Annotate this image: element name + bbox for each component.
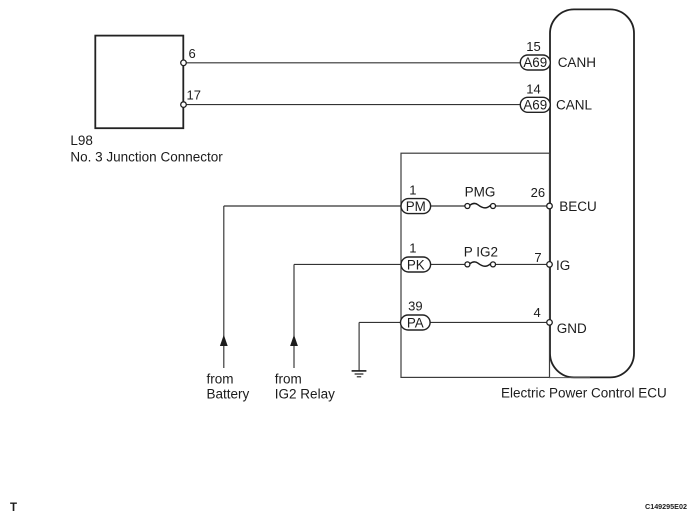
svg-text:17: 17: [187, 88, 201, 103]
svg-text:7: 7: [534, 250, 541, 265]
svg-text:from: from: [207, 371, 234, 386]
svg-text:PMG: PMG: [465, 185, 496, 200]
svg-text:IG: IG: [556, 258, 570, 273]
internal wiring box: [401, 153, 550, 377]
ground symbol: [352, 370, 367, 372]
wire fuse PMG to pin 26: [495, 205, 549, 207]
svg-text:C149295E02: C149295E02: [645, 502, 687, 511]
wire pin17 to A69-14: [184, 104, 521, 106]
svg-text:P IG2: P IG2: [464, 245, 498, 260]
wire IG2 vertical riser: [293, 264, 295, 368]
svg-text:A69: A69: [523, 98, 547, 113]
svg-text:26: 26: [531, 185, 545, 200]
wire fuse P IG2 to pin 7: [495, 263, 549, 265]
connector A69 pin 14 oval: [520, 97, 550, 112]
arrowhead from Battery: [220, 335, 228, 346]
pin 7 terminal circle: [547, 262, 553, 268]
svg-text:No. 3 Junction Connector: No. 3 Junction Connector: [70, 150, 223, 165]
connector PK oval pin 1: [401, 257, 431, 272]
svg-text:CANH: CANH: [558, 55, 596, 70]
junction connector L98 box: [95, 36, 183, 129]
svg-text:BECU: BECU: [559, 199, 597, 214]
ECU body: [550, 9, 634, 377]
pin 26 terminal circle: [547, 203, 553, 209]
fuse P IG2: [465, 262, 470, 267]
svg-text:39: 39: [408, 299, 422, 314]
svg-text:Battery: Battery: [207, 387, 250, 402]
svg-text:PA: PA: [407, 315, 424, 330]
arrowhead from IG2 Relay: [290, 335, 298, 346]
pin 17 terminal circle: [181, 102, 187, 108]
svg-text:1: 1: [409, 183, 416, 198]
connector PM oval pin 1: [401, 199, 431, 214]
wire battery horizontal to PM: [224, 205, 401, 207]
connector A69 pin 15 oval: [520, 55, 550, 70]
wire pin6 to A69-15: [184, 62, 521, 64]
svg-text:from: from: [275, 371, 302, 386]
svg-text:T: T: [10, 502, 17, 514]
wire PA to pin 4: [431, 321, 550, 323]
svg-text:PM: PM: [406, 199, 426, 214]
svg-text:PK: PK: [407, 257, 425, 272]
svg-text:CANL: CANL: [556, 98, 593, 113]
pin 6 terminal circle: [181, 60, 187, 66]
svg-text:A69: A69: [523, 55, 547, 70]
svg-text:1: 1: [409, 241, 416, 256]
svg-text:4: 4: [534, 305, 541, 320]
svg-text:15: 15: [526, 39, 540, 54]
connector PA oval pin 39: [401, 315, 431, 330]
wire box bottom continuation under ECU corner: [549, 377, 590, 379]
pin 4 terminal circle: [547, 320, 553, 326]
wire PM to fuse PMG: [431, 205, 465, 207]
svg-text:GND: GND: [557, 321, 587, 336]
wire battery vertical riser: [223, 206, 225, 368]
svg-text:6: 6: [189, 46, 196, 61]
wire ground vertical drop: [358, 322, 360, 371]
svg-text:14: 14: [526, 82, 540, 97]
svg-text:IG2 Relay: IG2 Relay: [275, 387, 335, 402]
wire ground horizontal to PA: [359, 321, 400, 323]
wire IG2 horizontal to PK: [294, 263, 401, 265]
svg-text:Electric Power Control ECU: Electric Power Control ECU: [501, 386, 667, 401]
wire PK to fuse P IG2: [431, 263, 465, 265]
fuse PMG: [465, 204, 470, 209]
svg-text:L98: L98: [70, 133, 93, 148]
